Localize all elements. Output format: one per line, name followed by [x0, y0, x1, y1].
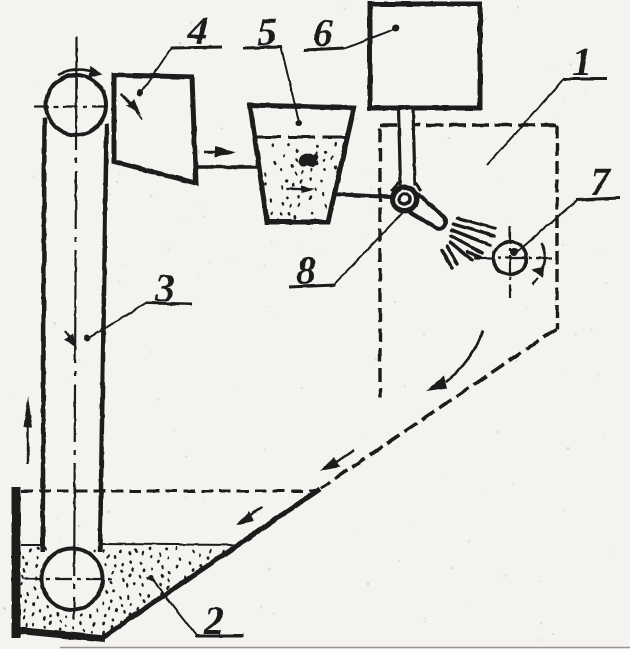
small downward arrow on belt (node for label 3) — [65, 331, 71, 340]
pit hopper 2 inclined wall — [103, 489, 320, 637]
atomizer disc 7 — [494, 242, 527, 275]
pipe mount left flare — [391, 182, 399, 191]
bottom pulley disc — [42, 549, 103, 610]
deflector chute 4 — [114, 75, 196, 183]
flow arrow above solid incline — [249, 507, 262, 516]
atomizer vertical centerline — [509, 226, 511, 298]
belt left edge — [43, 118, 45, 552]
chamber 1 dashed inclined edge — [321, 329, 556, 488]
arrow inside chute 4 — [121, 94, 131, 104]
chamber 1 dashed top edge — [380, 123, 556, 126]
slurry hopper 5 — [250, 105, 354, 222]
pipe mount right flare — [415, 182, 422, 191]
feed pipe right wall — [413, 108, 415, 186]
belt axis centerline — [74, 37, 77, 619]
material top level line in pit — [21, 544, 42, 546]
chamber 1 dashed right edge — [555, 125, 558, 329]
upward flow arrow left of elevator — [27, 424, 29, 464]
liquid level line in hopper 5 — [254, 136, 347, 139]
feed pipe white core — [400, 110, 412, 186]
sprayer pivot inner ring — [399, 194, 410, 205]
control box 6 — [370, 4, 480, 108]
sprayer horn body 8 — [399, 192, 446, 229]
chamber 1 dashed left edge — [378, 128, 381, 398]
flow arrow chute to hopper — [204, 151, 224, 154]
material dots in hopper 5 — [257, 142, 338, 220]
pit hopper 2 left wall — [12, 487, 21, 638]
small arrow inside hopper 5 — [286, 188, 303, 190]
link line hopper to sprayer — [332, 194, 391, 197]
bottom pulley horizontal centerline — [24, 578, 114, 580]
sprayer pivot outer ring — [393, 187, 417, 211]
pit hopper 2 dashed top boundary — [21, 490, 318, 493]
belt right edge — [100, 124, 107, 552]
top pulley rotation arrow — [58, 70, 93, 75]
transfer line chute to hopper — [194, 165, 260, 168]
top pulley horizontal centerline — [34, 105, 111, 107]
dark lump in hopper 5 — [299, 153, 319, 166]
faint scan line at bottom — [60, 647, 630, 649]
svg-text:1: 1 — [572, 39, 592, 84]
atomizer horizontal centerline — [474, 257, 552, 259]
feed pipe left wall — [399, 108, 401, 186]
curved flow arrow inside chamber — [446, 331, 483, 382]
top pulley — [46, 75, 106, 135]
spray jet lines — [442, 218, 495, 268]
pit hopper 2 bottom edge — [14, 630, 105, 639]
rotation arrow right of disc 7 — [541, 243, 545, 272]
granular material in pit hopper 2 — [17, 546, 232, 635]
flow arrow on dashed incline — [335, 450, 354, 463]
